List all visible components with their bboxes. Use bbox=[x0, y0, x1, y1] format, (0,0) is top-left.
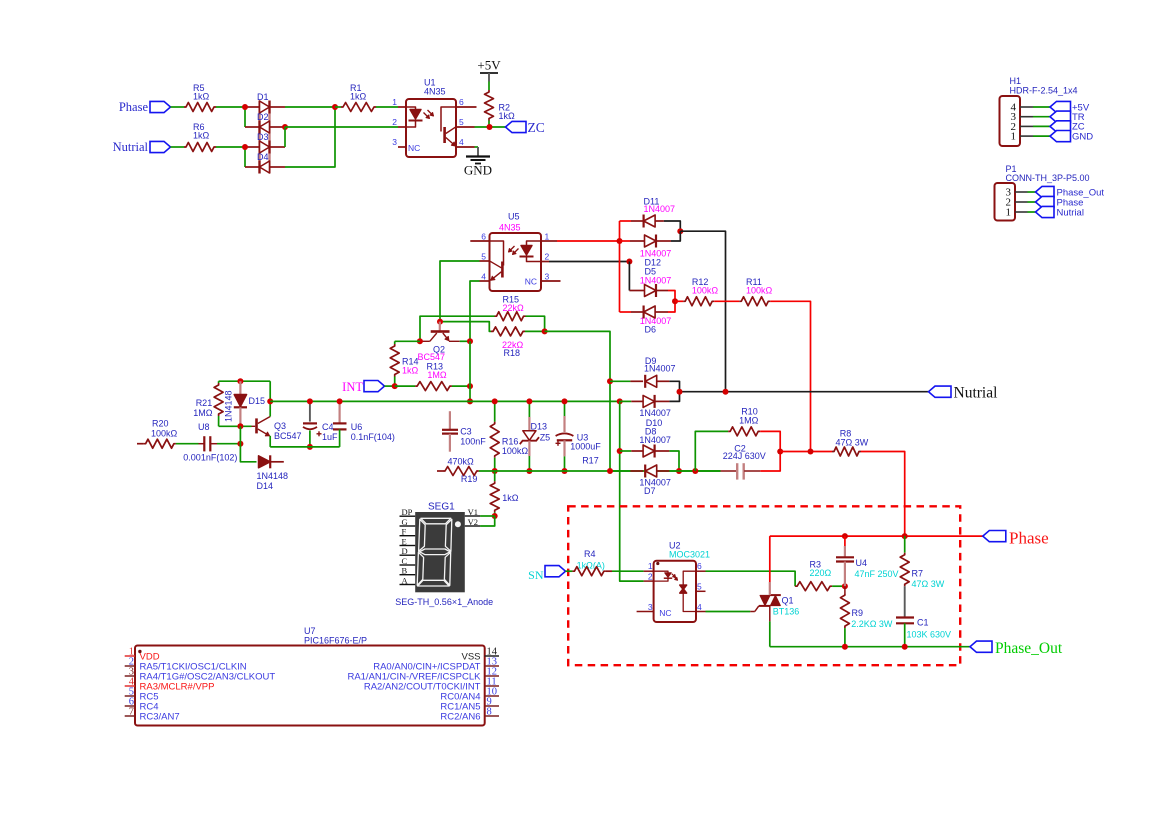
ground GND bbox=[464, 147, 492, 178]
wire bbox=[760, 452, 780, 472]
wire bbox=[769, 536, 771, 582]
svg-text:R21: R21 bbox=[196, 398, 213, 408]
svg-text:GND: GND bbox=[1072, 131, 1093, 142]
junction bbox=[677, 389, 683, 395]
svg-text:C3: C3 bbox=[460, 427, 472, 437]
svg-text:V2: V2 bbox=[468, 517, 478, 527]
wire bbox=[216, 106, 245, 108]
wire bbox=[1033, 116, 1050, 118]
svg-text:H1: H1 bbox=[1010, 76, 1022, 86]
wire bbox=[669, 381, 679, 391]
junction bbox=[902, 644, 908, 650]
svg-text:1: 1 bbox=[648, 561, 653, 571]
svg-text:D3: D3 bbox=[257, 132, 269, 142]
transistor Q2 BC547 bbox=[418, 322, 460, 363]
junction bbox=[617, 448, 623, 454]
junction bbox=[617, 238, 623, 244]
junction bbox=[902, 533, 908, 539]
svg-text:3: 3 bbox=[648, 602, 653, 612]
triac Q1 BT136 bbox=[750, 582, 799, 621]
svg-text:5: 5 bbox=[459, 117, 464, 127]
op-amp U5 4N35 optocoupler bbox=[470, 212, 560, 292]
wire bbox=[668, 291, 675, 302]
wire bbox=[240, 426, 256, 462]
wire bottom long row bbox=[479, 470, 721, 472]
svg-text:1uF: 1uF bbox=[322, 432, 338, 442]
port Nutrial (right) bbox=[929, 385, 998, 402]
svg-text:D14: D14 bbox=[257, 481, 274, 491]
junction bbox=[842, 644, 848, 650]
svg-text:R16: R16 bbox=[502, 437, 519, 447]
svg-text:4N35: 4N35 bbox=[424, 87, 446, 97]
wire bbox=[475, 126, 506, 128]
svg-text:100kΩ: 100kΩ bbox=[151, 429, 178, 439]
wire bbox=[1033, 125, 1050, 127]
svg-text:U6: U6 bbox=[351, 422, 363, 432]
diode D1 bbox=[245, 92, 285, 174]
svg-text:1kΩ: 1kΩ bbox=[193, 131, 210, 141]
wire bbox=[244, 147, 246, 167]
junction bbox=[267, 398, 273, 404]
wire bbox=[217, 443, 240, 445]
svg-text:1: 1 bbox=[1011, 131, 1017, 143]
wire bbox=[460, 340, 470, 342]
op-amp U2 MOC3021 bbox=[637, 541, 710, 623]
capacitor U6 bbox=[333, 401, 395, 447]
wire bbox=[714, 300, 739, 302]
wire bbox=[664, 221, 680, 231]
svg-text:5: 5 bbox=[697, 582, 702, 592]
wire bbox=[628, 262, 630, 291]
7-segment display SEG1 bbox=[395, 502, 493, 608]
wire U2 pin6 to R3 bbox=[706, 571, 796, 586]
junction bbox=[307, 398, 313, 404]
junction bbox=[842, 583, 848, 589]
wire main row bbox=[270, 400, 620, 402]
wire Q2 base row bbox=[440, 322, 491, 332]
resistor R13 bbox=[415, 362, 452, 391]
junction bbox=[607, 378, 613, 384]
svg-text:B: B bbox=[402, 566, 408, 576]
svg-text:U4: U4 bbox=[856, 558, 868, 568]
wire U5 pin5 to Q2 base bbox=[440, 261, 480, 322]
svg-text:22kΩ: 22kΩ bbox=[503, 303, 525, 313]
junction bbox=[332, 104, 338, 110]
junction bbox=[307, 444, 313, 450]
resistor R10 bbox=[728, 407, 760, 436]
wire bbox=[1028, 201, 1036, 203]
svg-text:1N4148: 1N4148 bbox=[257, 471, 289, 481]
wire bbox=[395, 385, 416, 387]
wire U5 pin2 to D5 bbox=[549, 261, 629, 263]
port Phase_Out bbox=[1036, 186, 1105, 198]
svg-text:R20: R20 bbox=[152, 419, 169, 429]
svg-text:Phase: Phase bbox=[119, 100, 149, 114]
diode D5 bbox=[629, 267, 671, 298]
wire bbox=[285, 107, 335, 167]
wire bbox=[1028, 211, 1036, 213]
port TR bbox=[1050, 111, 1085, 123]
svg-text:R4: R4 bbox=[584, 549, 596, 559]
wire base rail bbox=[219, 425, 252, 427]
wire to D9/D7 rail bbox=[545, 331, 610, 471]
svg-text:Z5: Z5 bbox=[540, 433, 551, 443]
wire bbox=[669, 451, 679, 471]
diode D8 bbox=[620, 426, 671, 457]
wire bbox=[668, 301, 675, 312]
svg-text:4N35: 4N35 bbox=[499, 223, 521, 233]
svg-text:2: 2 bbox=[392, 117, 397, 127]
junction bbox=[526, 398, 532, 404]
junction bbox=[676, 468, 682, 474]
resistor R12 bbox=[683, 277, 718, 306]
svg-text:D2: D2 bbox=[257, 112, 269, 122]
capacitor U3 1000uF bbox=[556, 401, 602, 471]
svg-text:1MΩ: 1MΩ bbox=[427, 370, 447, 380]
capacitor U4 47nF bbox=[836, 536, 899, 586]
svg-text:PIC16F676-E/P: PIC16F676-E/P bbox=[304, 636, 367, 646]
junction bbox=[562, 468, 568, 474]
power +5V bbox=[477, 58, 501, 82]
wire red rail bbox=[619, 221, 621, 312]
svg-text:Nutrial: Nutrial bbox=[954, 385, 998, 402]
wire bbox=[1033, 106, 1050, 108]
svg-text:D6: D6 bbox=[645, 325, 657, 335]
svg-text:INT: INT bbox=[342, 380, 363, 394]
resistor R20 bbox=[137, 419, 178, 449]
junction bbox=[492, 398, 498, 404]
junction bbox=[626, 259, 632, 265]
junction bbox=[492, 513, 498, 519]
svg-text:8: 8 bbox=[487, 707, 492, 718]
resistor R3 bbox=[795, 560, 832, 591]
junction bbox=[417, 338, 423, 344]
svg-text:Q1: Q1 bbox=[782, 595, 794, 605]
wire bbox=[244, 107, 246, 127]
wire bbox=[376, 106, 398, 108]
resistor R7 bbox=[900, 536, 945, 617]
svg-text:BT136: BT136 bbox=[773, 607, 800, 617]
svg-text:224J 630V: 224J 630V bbox=[723, 451, 766, 461]
junction bbox=[677, 228, 683, 234]
svg-text:G: G bbox=[402, 517, 408, 527]
svg-text:V1: V1 bbox=[468, 507, 478, 517]
wire bbox=[769, 621, 771, 646]
svg-text:4: 4 bbox=[481, 272, 486, 282]
diode D4 bbox=[245, 152, 285, 174]
svg-text:1kΩ(A): 1kΩ(A) bbox=[577, 561, 605, 571]
svg-text:4: 4 bbox=[459, 137, 464, 147]
resistor R16 bbox=[490, 401, 528, 471]
svg-text:HDR-F-2.54_1x4: HDR-F-2.54_1x4 bbox=[1010, 86, 1078, 96]
junction bbox=[672, 298, 678, 304]
resistor R2 bbox=[485, 90, 516, 121]
svg-text:GND: GND bbox=[464, 163, 492, 178]
diode D13 zener Z5 bbox=[520, 401, 550, 471]
svg-text:ZC: ZC bbox=[528, 120, 545, 135]
svg-text:100kΩ: 100kΩ bbox=[692, 286, 719, 296]
svg-text:3: 3 bbox=[545, 272, 550, 282]
diode D7 bbox=[610, 465, 671, 497]
svg-text:1000uF: 1000uF bbox=[570, 442, 601, 452]
svg-text:0.1nF(104): 0.1nF(104) bbox=[351, 432, 395, 442]
wire bbox=[216, 146, 245, 148]
svg-text:5: 5 bbox=[481, 252, 486, 262]
resistor R19 470k bbox=[437, 457, 479, 485]
resistor R1 bbox=[341, 83, 376, 112]
transistor Q3 BC547 bbox=[252, 417, 302, 442]
wire bbox=[606, 570, 612, 572]
port Phase (input) bbox=[119, 100, 171, 114]
junction bbox=[617, 398, 623, 404]
resistor R11 bbox=[739, 277, 772, 306]
svg-text:470kΩ: 470kΩ bbox=[448, 457, 475, 467]
diode D12 bbox=[620, 235, 672, 268]
junction bbox=[237, 423, 243, 429]
wire bbox=[675, 300, 683, 302]
junction bbox=[467, 398, 473, 404]
svg-text:100nF: 100nF bbox=[460, 437, 486, 447]
wire bbox=[566, 570, 573, 572]
svg-text:1kΩ: 1kΩ bbox=[193, 92, 210, 102]
junction bbox=[282, 124, 288, 130]
wire bbox=[395, 340, 420, 342]
svg-text:C4: C4 bbox=[322, 422, 334, 432]
port Nutrial bbox=[1036, 206, 1084, 218]
resistor R18 bbox=[491, 327, 525, 358]
diode D2 bbox=[245, 112, 285, 134]
svg-text:1N4007: 1N4007 bbox=[644, 364, 676, 374]
svg-text:2: 2 bbox=[648, 572, 653, 582]
svg-text:SEG1: SEG1 bbox=[428, 502, 455, 513]
port Phase (right) bbox=[983, 529, 1049, 548]
svg-text:R7: R7 bbox=[912, 569, 924, 579]
junction bbox=[607, 468, 613, 474]
svg-text:Nutrial: Nutrial bbox=[1057, 207, 1084, 218]
junction bbox=[842, 533, 848, 539]
wire bbox=[335, 106, 341, 108]
svg-text:0.001nF(102): 0.001nF(102) bbox=[183, 453, 237, 463]
resistor R17 1k (vertical) bbox=[490, 471, 519, 516]
port ZC bbox=[1050, 121, 1085, 133]
junction bbox=[492, 468, 498, 474]
diode D10 bbox=[620, 395, 671, 428]
wire top red rail bbox=[770, 535, 983, 537]
resistor R15 bbox=[495, 295, 526, 321]
svg-text:E: E bbox=[402, 537, 407, 547]
svg-text:Q3: Q3 bbox=[274, 421, 286, 431]
diode D9 bbox=[610, 356, 676, 388]
junction bbox=[562, 398, 568, 404]
svg-text:R9: R9 bbox=[852, 608, 864, 618]
svg-text:1kΩ: 1kΩ bbox=[350, 92, 367, 102]
wire bbox=[669, 392, 679, 402]
wire bbox=[452, 385, 470, 387]
wire bbox=[832, 585, 845, 587]
svg-text:1N4148: 1N4148 bbox=[224, 390, 234, 422]
wire bbox=[488, 121, 490, 128]
capacitor C1 103K 630V bbox=[896, 618, 951, 647]
wire bbox=[679, 470, 721, 472]
wire Nutrial net bbox=[680, 391, 929, 393]
svg-text:1N4007: 1N4007 bbox=[639, 435, 671, 445]
wire bbox=[475, 146, 479, 148]
capacitor C3 (floating) bbox=[442, 411, 486, 452]
svg-text:1MΩ: 1MΩ bbox=[739, 416, 759, 426]
dashed snubber box bbox=[568, 506, 960, 665]
svg-text:100kΩ: 100kΩ bbox=[746, 286, 773, 296]
wire bbox=[1033, 135, 1050, 137]
svg-text:1N4007: 1N4007 bbox=[644, 204, 676, 214]
port INT bbox=[342, 380, 384, 394]
svg-text:C1: C1 bbox=[917, 618, 929, 628]
wire bbox=[171, 106, 185, 108]
resistor R9 bbox=[840, 586, 893, 647]
svg-text:U7: U7 bbox=[304, 626, 316, 636]
junction bbox=[808, 449, 814, 455]
junction bbox=[242, 104, 248, 110]
svg-text:1: 1 bbox=[545, 232, 550, 242]
svg-text:Nutrial: Nutrial bbox=[113, 140, 149, 154]
capacitor C4 bbox=[303, 401, 338, 447]
wire bbox=[770, 301, 810, 451]
port Nutrial (input) bbox=[113, 140, 171, 154]
junction bbox=[467, 338, 473, 344]
resistor R21 bbox=[193, 381, 223, 426]
diode D11 bbox=[620, 197, 676, 228]
op-amp U1 4N35 optocoupler bbox=[392, 78, 476, 158]
junction bbox=[392, 383, 398, 389]
svg-text:47Ω 3W: 47Ω 3W bbox=[912, 579, 945, 589]
svg-text:R18: R18 bbox=[504, 348, 521, 358]
svg-text:Phase_Out: Phase_Out bbox=[995, 640, 1063, 657]
svg-text:+5V: +5V bbox=[477, 58, 501, 73]
svg-text:1: 1 bbox=[392, 97, 397, 107]
wire bbox=[285, 106, 335, 108]
svg-text:6: 6 bbox=[459, 97, 464, 107]
svg-text:100kΩ: 100kΩ bbox=[502, 446, 529, 456]
junction bbox=[437, 319, 443, 325]
connector H1 HDR-F-2.54_1x4 bbox=[1000, 76, 1078, 146]
wire R10 branch bbox=[695, 431, 728, 471]
wire bbox=[176, 443, 199, 445]
wire top rail to row bbox=[269, 381, 271, 401]
wire bbox=[780, 451, 832, 453]
junction bbox=[237, 378, 243, 384]
svg-text:RC2/AN6: RC2/AN6 bbox=[440, 711, 480, 722]
svg-text:CONN-TH_3P-P5.00: CONN-TH_3P-P5.00 bbox=[1006, 173, 1090, 183]
resistor R4 bbox=[572, 549, 606, 576]
svg-text:2.2KΩ 3W: 2.2KΩ 3W bbox=[851, 619, 893, 629]
svg-text:103K 630V: 103K 630V bbox=[907, 630, 952, 640]
svg-text:D15: D15 bbox=[249, 396, 266, 406]
junction bbox=[237, 441, 243, 447]
junction bbox=[487, 124, 493, 130]
svg-text:NC: NC bbox=[408, 143, 420, 153]
wire emitter down bbox=[269, 436, 271, 447]
junction bbox=[542, 328, 548, 334]
wire D8 net vertical bbox=[620, 401, 644, 581]
svg-text:2: 2 bbox=[545, 252, 550, 262]
svg-text:1kΩ: 1kΩ bbox=[402, 366, 419, 376]
svg-text:D4: D4 bbox=[257, 152, 269, 162]
diode D6 bbox=[620, 306, 672, 335]
wire bbox=[760, 431, 780, 451]
wire bottom rail bbox=[270, 446, 339, 448]
capacitor C2 224J 630V bbox=[721, 444, 766, 480]
svg-text:1kΩ: 1kΩ bbox=[502, 493, 519, 503]
diode D15 1N4148 bbox=[224, 381, 266, 426]
svg-text:SEG-TH_0.56×1_Anode: SEG-TH_0.56×1_Anode bbox=[395, 597, 493, 607]
wire bbox=[525, 330, 545, 332]
wire R15 rail bbox=[420, 316, 495, 341]
wire V1 bbox=[480, 515, 495, 517]
svg-text:C: C bbox=[402, 556, 408, 566]
wire bbox=[1028, 191, 1036, 193]
svg-text:3: 3 bbox=[392, 137, 397, 147]
wire bottom green rail bbox=[770, 646, 970, 648]
port +5V bbox=[1050, 101, 1090, 113]
port GND bbox=[1050, 131, 1093, 143]
port Phase bbox=[1036, 196, 1084, 208]
wire bbox=[385, 385, 395, 387]
svg-text:R17: R17 bbox=[582, 456, 599, 466]
wire emitter net down bbox=[469, 341, 471, 401]
wire bbox=[284, 127, 286, 147]
svg-text:1kΩ: 1kΩ bbox=[499, 111, 516, 121]
svg-text:BC547: BC547 bbox=[274, 431, 302, 441]
svg-text:SN: SN bbox=[528, 568, 544, 582]
svg-text:1: 1 bbox=[1006, 207, 1012, 219]
svg-text:47nF 250V: 47nF 250V bbox=[855, 569, 899, 579]
svg-text:DP: DP bbox=[402, 507, 413, 517]
resistor R14 bbox=[390, 341, 418, 386]
svg-text:U5: U5 bbox=[508, 212, 520, 222]
port SN bbox=[528, 566, 565, 582]
svg-text:1N4007: 1N4007 bbox=[639, 408, 671, 418]
connector P1 CONN-TH_3P-P5.00 bbox=[995, 164, 1090, 221]
wire bbox=[861, 452, 905, 537]
svg-text:D1: D1 bbox=[257, 92, 269, 102]
junction bbox=[692, 468, 698, 474]
svg-text:F: F bbox=[402, 527, 407, 537]
junction bbox=[526, 468, 532, 474]
capacitor U8 bbox=[183, 422, 237, 463]
svg-text:A: A bbox=[402, 576, 409, 586]
wire U2 pin4 to gate bbox=[706, 611, 751, 613]
junction bbox=[337, 398, 343, 404]
wire bbox=[680, 231, 725, 392]
wire bbox=[669, 470, 679, 472]
junction bbox=[467, 383, 473, 389]
wire top rail bbox=[219, 380, 271, 382]
svg-text:1MΩ: 1MΩ bbox=[193, 408, 213, 418]
svg-text:D7: D7 bbox=[644, 486, 656, 496]
wire bbox=[285, 126, 398, 128]
svg-text:D: D bbox=[402, 546, 408, 556]
wire V2 bbox=[480, 516, 495, 526]
wire U5 pin1 to diode rail bbox=[557, 240, 620, 242]
diode D14 1N4148 bbox=[257, 455, 289, 491]
svg-text:NC: NC bbox=[659, 608, 671, 618]
wire bbox=[671, 231, 680, 241]
svg-text:Phase: Phase bbox=[1009, 529, 1049, 548]
svg-text:NC: NC bbox=[525, 277, 537, 287]
resistor R5 bbox=[184, 83, 216, 112]
wire bbox=[526, 316, 545, 331]
svg-text:6: 6 bbox=[481, 232, 486, 242]
wire bbox=[171, 146, 185, 148]
